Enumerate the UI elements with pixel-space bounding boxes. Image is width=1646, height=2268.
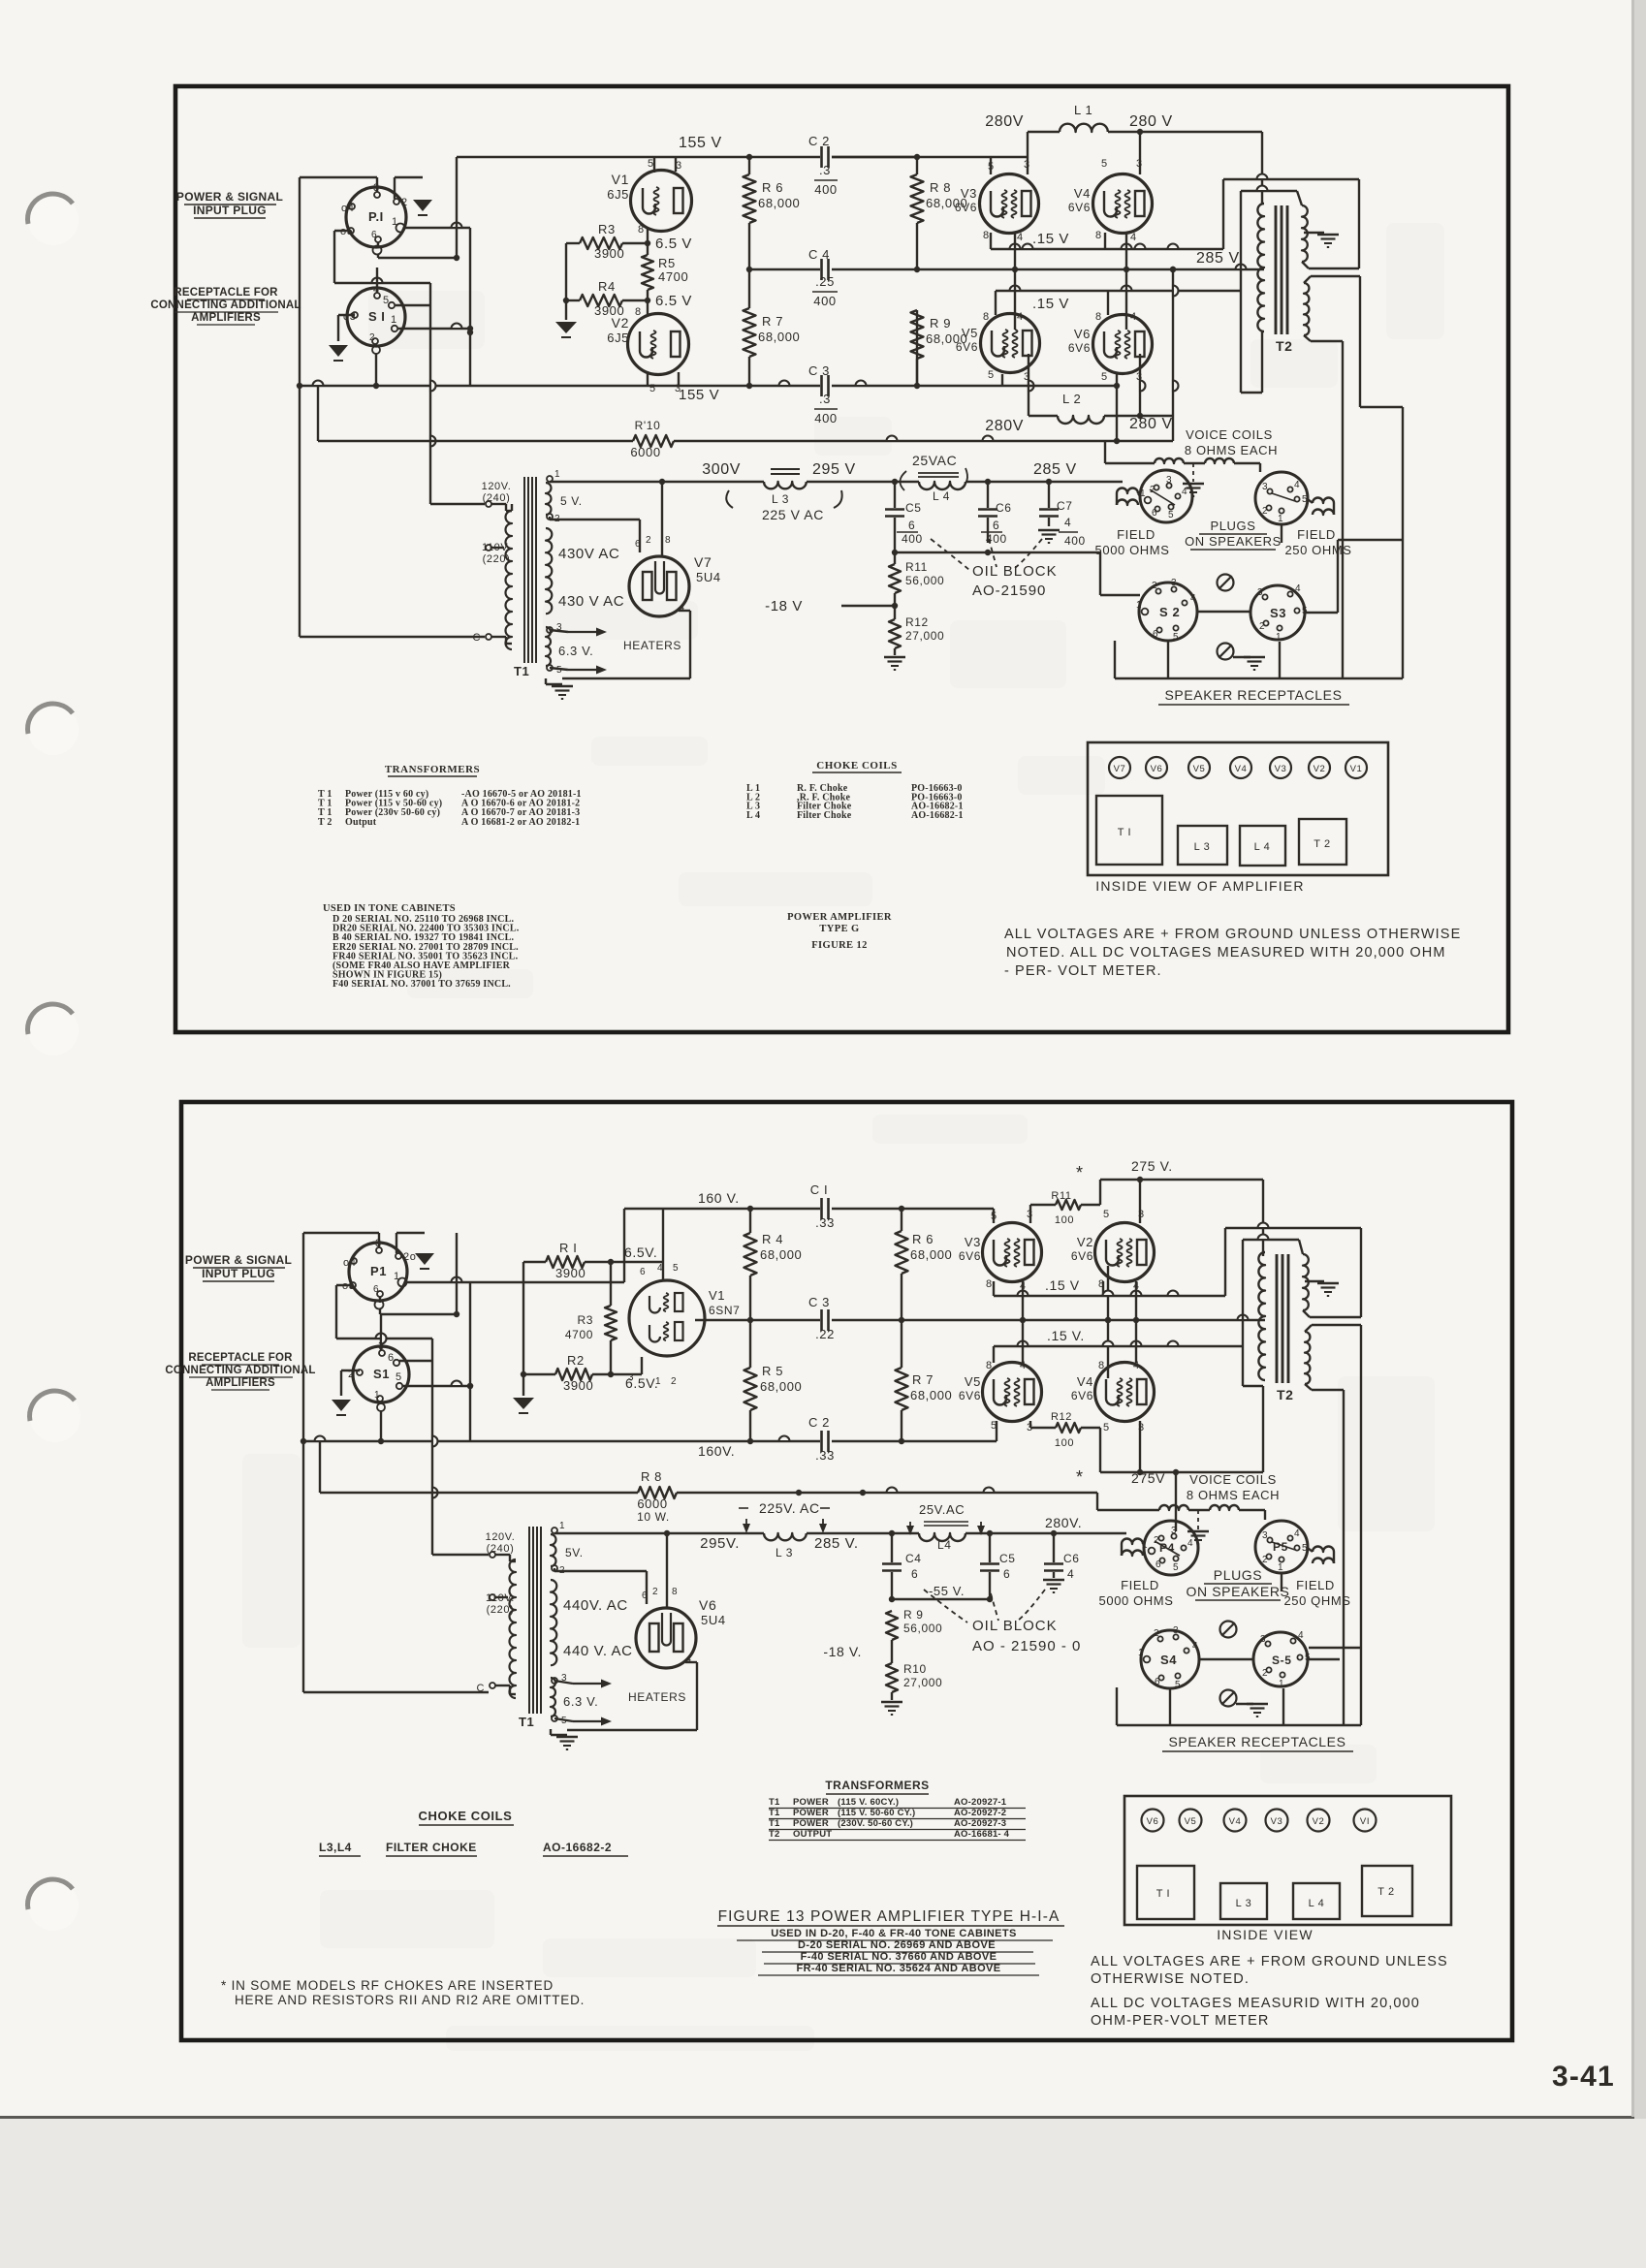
svg-text:5: 5 [1101,158,1108,170]
svg-text:ON SPEAKERS: ON SPEAKERS [1185,534,1282,549]
svg-text:1: 1 [1278,514,1283,524]
svg-text:2: 2 [1259,621,1265,632]
svg-text:25V.AC: 25V.AC [919,1502,965,1517]
svg-text:T I: T I [1118,827,1131,838]
svg-text:Filter Choke: Filter Choke [797,810,852,821]
svg-text:1: 1 [394,1271,400,1282]
svg-text:L 2: L 2 [1062,392,1081,406]
svg-text:400: 400 [814,182,838,197]
svg-text:3: 3 [1171,578,1177,588]
svg-text:3: 3 [1257,587,1263,598]
svg-text:8: 8 [635,306,642,318]
svg-text:4: 4 [1298,1630,1304,1641]
svg-text:C6: C6 [1063,1552,1080,1565]
svg-text:5: 5 [1103,1209,1110,1220]
svg-text:6.5V.: 6.5V. [625,1375,658,1391]
svg-text:VI: VI [1360,1816,1370,1827]
svg-text:25VAC: 25VAC [912,453,957,468]
svg-text:6: 6 [371,230,377,240]
svg-text:68,000: 68,000 [760,1379,802,1394]
svg-text:T 2: T 2 [1314,838,1331,850]
svg-text:3-41: 3-41 [1552,2061,1615,2093]
svg-text:F-40 SERIAL NO. 37660 AND ABOV: F-40 SERIAL NO. 37660 AND ABOVE [801,1951,997,1963]
svg-text:4: 4 [1130,232,1137,243]
svg-text:HERE AND RESISTORS RII AND RI2: HERE AND RESISTORS RII AND RI2 ARE OMITT… [235,1993,585,2007]
svg-text:ALL DC VOLTAGES MEASURID W: ALL DC VOLTAGES MEASURID WITH 20,000 [1091,1996,1420,2011]
svg-text:400: 400 [902,532,923,546]
svg-text:CONNECTING ADDITIONAL: CONNECTING ADDITIONAL [165,1365,315,1376]
svg-text:5 V.: 5 V. [560,494,583,508]
svg-text:4: 4 [1130,311,1137,323]
svg-text:R 7: R 7 [912,1372,934,1387]
svg-text:6: 6 [640,1267,646,1277]
svg-text:VOICE COILS: VOICE COILS [1186,427,1273,442]
svg-text:2: 2 [646,535,651,546]
svg-text:OIL BLOCK: OIL BLOCK [972,1618,1058,1634]
svg-text:27,000: 27,000 [903,1676,942,1689]
svg-text:V4: V4 [1077,1374,1093,1389]
svg-text:68,000: 68,000 [760,1247,802,1262]
svg-text:V7: V7 [694,554,712,570]
svg-text:L 1: L 1 [1074,103,1092,117]
svg-text:8: 8 [665,535,671,546]
svg-text:.15 V: .15 V [1032,231,1069,247]
svg-text:6V6: 6V6 [955,201,977,214]
svg-text:FIELD: FIELD [1297,527,1336,542]
svg-text:R 9: R 9 [930,316,951,331]
svg-text:R 8: R 8 [930,180,951,195]
svg-text:R 5: R 5 [762,1364,783,1378]
svg-text:OTHERWISE NOTED.: OTHERWISE NOTED. [1091,1971,1250,1987]
svg-text:R12: R12 [1051,1411,1072,1423]
svg-text:-55 V.: -55 V. [929,1584,965,1598]
svg-text:5: 5 [1173,632,1179,643]
svg-text:NOTED. ALL DC VOLTAGES MEA: NOTED. ALL DC VOLTAGES MEASURED WITH 20,… [1006,945,1446,961]
svg-text:L 4: L 4 [933,489,950,503]
svg-text:V3: V3 [961,186,977,201]
svg-text:275V: 275V [1131,1470,1165,1486]
svg-text:V5: V5 [1193,764,1206,774]
svg-text:4: 4 [1294,1528,1300,1539]
svg-text:FILTER CHOKE: FILTER CHOKE [386,1841,477,1854]
svg-text:L 3: L 3 [1236,1898,1252,1909]
svg-text:8: 8 [986,1278,993,1290]
svg-text:4: 4 [1294,480,1300,490]
svg-text:- PER- VOLT METER.: - PER- VOLT METER. [1004,963,1162,979]
svg-text:R10: R10 [903,1662,927,1676]
svg-text:155 V: 155 V [679,387,719,403]
svg-text:POWER & SIGNAL: POWER & SIGNAL [176,190,283,204]
svg-text:6: 6 [373,1284,379,1295]
svg-text:5: 5 [383,295,390,306]
svg-text:8: 8 [1098,1360,1105,1371]
svg-text:USED IN D-20, F-40 & FR-40 TON: USED IN D-20, F-40 & FR-40 TONE CABINETS [771,1928,1017,1939]
svg-text:F40 SERIAL NO. 37001 TO: F40 SERIAL NO. 37001 TO 37659 INCL. [332,979,511,990]
svg-text:295 V: 295 V [812,461,856,478]
svg-text:1: 1 [1276,632,1282,643]
svg-text:6: 6 [908,519,915,532]
svg-text:(230V. 50-60 CY.): (230V. 50-60 CY.) [838,1818,913,1829]
svg-text:V5: V5 [962,326,978,340]
svg-text:5: 5 [1302,1543,1308,1554]
svg-text:5: 5 [648,158,654,170]
svg-text:L 4: L 4 [746,810,760,821]
svg-text:5: 5 [1168,510,1174,520]
svg-text:3900: 3900 [555,1266,586,1280]
svg-text:400: 400 [1064,534,1086,548]
svg-text:S 2: S 2 [1159,605,1180,619]
svg-text:250 QHMS: 250 QHMS [1283,1593,1350,1608]
svg-text:160 V.: 160 V. [698,1190,740,1206]
svg-text:68,000: 68,000 [758,196,800,210]
svg-text:4: 4 [1192,1641,1198,1652]
svg-text:3: 3 [1262,482,1268,492]
svg-text:3: 3 [1260,1634,1266,1645]
svg-text:285 V: 285 V [1196,250,1240,267]
svg-text:TYPE G: TYPE G [819,924,859,934]
svg-text:AO-16682-1: AO-16682-1 [911,810,964,821]
svg-text:R 6: R 6 [762,180,783,195]
svg-text:1: 1 [392,216,398,228]
svg-text:280 V: 280 V [1129,416,1173,432]
svg-text:6: 6 [1153,629,1158,640]
svg-text:C 2: C 2 [808,134,830,148]
svg-text:PLUGS: PLUGS [1210,519,1255,533]
svg-text:6V6: 6V6 [959,1249,981,1263]
svg-text:4: 4 [657,1263,663,1274]
svg-text:430 V AC: 430 V AC [558,593,624,610]
svg-text:R3: R3 [577,1313,593,1327]
svg-text:V4: V4 [1229,1816,1242,1827]
svg-text:2: 2 [1152,581,1157,591]
svg-text:.15 V.: .15 V. [1047,1328,1085,1343]
svg-text:(220): (220) [487,1604,515,1616]
svg-text:56,000: 56,000 [903,1622,942,1635]
svg-text:(240): (240) [487,1543,515,1555]
svg-text:HEATERS: HEATERS [628,1690,686,1704]
svg-text:10 W.: 10 W. [637,1510,670,1524]
svg-text:T2: T2 [769,1829,780,1840]
svg-text:V6: V6 [1151,764,1163,774]
svg-text:FIELD: FIELD [1121,1578,1159,1592]
svg-text:V2: V2 [1313,1816,1325,1827]
svg-text:P1: P1 [370,1264,387,1278]
svg-text:6SN7: 6SN7 [709,1304,740,1317]
svg-text:V2: V2 [1314,764,1326,774]
svg-text:T2: T2 [1276,338,1293,354]
svg-text:4: 4 [1182,487,1187,497]
svg-text:5: 5 [673,1263,679,1274]
svg-text:POWER: POWER [793,1818,829,1829]
svg-text:3: 3 [1024,159,1030,171]
svg-text:OUTPUT: OUTPUT [793,1829,832,1840]
svg-text:6V6: 6V6 [1071,1249,1093,1263]
svg-text:6V6: 6V6 [956,340,978,354]
svg-text:100: 100 [1055,1437,1074,1449]
svg-text:V3: V3 [1275,764,1287,774]
svg-text:1: 1 [391,314,397,326]
svg-text:27,000: 27,000 [905,629,944,643]
svg-text:5: 5 [1173,1562,1179,1573]
svg-text:*: * [1076,1467,1084,1487]
svg-text:*: * [1076,1163,1084,1182]
svg-text:o3: o3 [343,311,356,323]
svg-text:R11: R11 [1051,1190,1071,1202]
svg-text:1: 1 [1278,1562,1283,1573]
svg-text:4: 4 [1190,593,1196,604]
svg-text:C 2: C 2 [808,1415,830,1430]
svg-text:6.5V.: 6.5V. [624,1244,657,1260]
svg-text:68,000: 68,000 [910,1247,952,1262]
svg-text:CONNECTING ADDITIONAL: CONNECTING ADDITIONAL [150,299,301,311]
svg-text:225V. AC: 225V. AC [759,1500,820,1516]
svg-text:5: 5 [1103,1422,1110,1433]
svg-text:6.5 V: 6.5 V [655,236,692,252]
svg-text:100: 100 [1055,1214,1074,1226]
svg-text:L4: L4 [937,1538,952,1552]
svg-text:8: 8 [1095,311,1102,323]
svg-text:400: 400 [814,411,838,425]
svg-text:C 3: C 3 [808,363,830,378]
svg-text:S I: S I [368,309,385,324]
svg-text:(115 V. 50-60 CY.): (115 V. 50-60 CY.) [838,1808,915,1818]
svg-text:250 OHMS: 250 OHMS [1284,543,1351,557]
svg-text:5: 5 [988,369,995,381]
svg-text:L 3: L 3 [1194,841,1211,853]
svg-text:T1: T1 [769,1808,780,1818]
svg-text:S-5: S-5 [1272,1654,1291,1667]
svg-text:.33: .33 [815,1215,835,1230]
svg-text:S4: S4 [1160,1653,1177,1667]
svg-text:3: 3 [1173,1625,1179,1636]
svg-text:5: 5 [991,1420,997,1432]
svg-text:SPEAKER RECEPTACLES: SPEAKER RECEPTACLES [1168,1734,1345,1749]
svg-text:5: 5 [988,161,995,173]
svg-text:-18 V.: -18 V. [823,1644,862,1659]
svg-text:D-20 SERIAL NO. 26969 AND ABOV: D-20 SERIAL NO. 26969 AND ABOVE [798,1939,996,1951]
svg-text:430V AC: 430V AC [558,546,619,562]
svg-text:5: 5 [1302,606,1308,616]
svg-text:o4: o4 [341,203,354,214]
svg-text:T1: T1 [769,1797,780,1808]
svg-text:FR-40 SERIAL NO. 35624 AND ABO: FR-40 SERIAL NO. 35624 AND ABOVE [796,1963,1000,1974]
svg-text:V3: V3 [1271,1816,1283,1827]
svg-text:C5: C5 [999,1552,1016,1565]
svg-text:8: 8 [1095,230,1102,241]
svg-text:C I: C I [810,1182,828,1197]
svg-text:1: 1 [1136,600,1142,611]
svg-text:R5: R5 [658,256,676,270]
svg-text:C7: C7 [1057,499,1073,513]
svg-text:120V.: 120V. [482,481,512,492]
svg-text:L3,L4: L3,L4 [319,1841,352,1854]
svg-text:R11: R11 [905,560,928,574]
svg-text:4: 4 [1067,1567,1074,1581]
svg-text:155 V: 155 V [679,135,722,151]
svg-text:SPEAKER RECEPTACLES: SPEAKER RECEPTACLES [1164,687,1342,703]
svg-text:POWER: POWER [793,1808,829,1818]
svg-text:1: 1 [1279,1679,1284,1689]
svg-text:(220): (220) [483,553,511,565]
svg-text:6: 6 [1003,1567,1010,1581]
svg-text:INPUT PLUG: INPUT PLUG [202,1267,275,1280]
svg-text:68,000: 68,000 [758,330,800,344]
svg-text:AO-21590: AO-21590 [972,583,1046,599]
svg-text:TRANSFORMERS: TRANSFORMERS [825,1779,929,1792]
svg-text:1: 1 [1140,488,1146,499]
svg-text:6V6: 6V6 [1071,1389,1093,1402]
svg-text:68,000: 68,000 [910,1388,952,1402]
svg-text:2: 2 [671,1376,677,1387]
svg-text:2: 2 [1154,1628,1159,1639]
svg-text:6V6: 6V6 [1068,201,1091,214]
svg-text:285 V: 285 V [1033,461,1077,478]
svg-text:V4: V4 [1074,186,1091,201]
svg-text:R I: R I [559,1241,577,1255]
svg-text:TRANSFORMERS: TRANSFORMERS [385,764,480,775]
svg-text:6: 6 [1155,1677,1160,1687]
svg-text:8: 8 [672,1587,678,1597]
svg-text:8 OHMS EACH: 8 OHMS EACH [1187,1488,1280,1502]
svg-text:R 6: R 6 [912,1232,934,1246]
svg-text:4: 4 [1064,516,1071,529]
svg-text:.3: .3 [819,163,831,177]
svg-text:5000 OHMS: 5000 OHMS [1095,543,1170,557]
svg-text:AMPLIFIERS: AMPLIFIERS [206,1377,275,1389]
svg-text:-18 V: -18 V [765,598,803,614]
svg-text:2: 2 [652,1587,658,1597]
svg-text:POWER: POWER [793,1797,829,1808]
svg-text:5V.: 5V. [565,1546,584,1559]
svg-text:6: 6 [1155,1559,1161,1570]
svg-text:FIGURE 13 POWER AMPLIFIER: FIGURE 13 POWER AMPLIFIER TYPE H-I-A [718,1908,1060,1925]
svg-text:ON SPEAKERS: ON SPEAKERS [1187,1584,1290,1599]
svg-text:.33: .33 [815,1448,835,1463]
svg-text:HEATERS: HEATERS [623,639,681,652]
svg-text:V6: V6 [1147,1816,1159,1827]
svg-text:1: 1 [559,1521,565,1531]
svg-text:8: 8 [638,224,645,236]
svg-text:8: 8 [983,311,990,323]
svg-text:5: 5 [396,1371,402,1383]
svg-text:8: 8 [983,230,990,241]
svg-text:1: 1 [554,469,560,480]
svg-text:.25: .25 [815,274,835,289]
svg-text:R4: R4 [598,279,616,294]
svg-text:3900: 3900 [594,246,624,261]
svg-text:T I: T I [1156,1888,1170,1900]
svg-text:USED IN TONE CABINETS: USED IN TONE CABINETS [323,903,456,914]
svg-text:POWER AMPLIFIER: POWER AMPLIFIER [787,912,892,923]
svg-text:VOICE COILS: VOICE COILS [1189,1472,1277,1487]
svg-text:C6: C6 [996,501,1012,515]
svg-text:V1: V1 [709,1288,725,1303]
svg-text:6.3 V.: 6.3 V. [563,1694,598,1709]
svg-text:T2: T2 [1277,1387,1294,1402]
svg-text:V1: V1 [1350,764,1363,774]
svg-text:AO-20927-3: AO-20927-3 [954,1818,1006,1829]
svg-text:INPUT PLUG: INPUT PLUG [193,204,267,217]
svg-text:T1: T1 [514,664,529,678]
svg-text:RECEPTACLE FOR: RECEPTACLE FOR [188,1352,293,1364]
svg-text:L 3: L 3 [776,1546,793,1559]
svg-text:440V. AC: 440V. AC [563,1597,628,1614]
svg-text:2: 2 [1262,1555,1268,1565]
svg-text:300V: 300V [702,461,741,478]
svg-text:.15 V: .15 V [1045,1277,1080,1293]
svg-text:V7: V7 [1114,764,1126,774]
svg-text:* IN SOME MODELS RF CHOKES ARE: * IN SOME MODELS RF CHOKES ARE INSERTED [221,1978,554,1993]
svg-text:4: 4 [1187,1538,1193,1549]
svg-text:INSIDE VIEW: INSIDE VIEW [1217,1927,1314,1942]
svg-text:5: 5 [556,665,562,676]
svg-text:ALL VOLTAGES ARE + FROM GRO: ALL VOLTAGES ARE + FROM GROUND UNLESS OT… [1004,927,1461,942]
svg-text:5U4: 5U4 [696,570,721,584]
svg-text:T1: T1 [519,1715,534,1729]
svg-text:6000: 6000 [637,1496,667,1511]
svg-text:2: 2 [1262,506,1268,517]
svg-text:440 V. AC: 440 V. AC [563,1643,633,1659]
svg-text:110V.: 110V. [482,542,511,553]
svg-text:FIELD: FIELD [1296,1578,1335,1592]
svg-text:6V6: 6V6 [959,1389,981,1402]
svg-text:1: 1 [374,1390,380,1401]
svg-text:(240): (240) [483,492,511,504]
svg-text:.15 V: .15 V [1032,296,1069,312]
svg-text:V3: V3 [965,1235,981,1249]
svg-text:AO - 21590 - 0: AO - 21590 - 0 [972,1638,1081,1654]
svg-text:56,000: 56,000 [905,574,944,587]
svg-text:3: 3 [1166,475,1172,486]
svg-text:FIELD: FIELD [1117,527,1155,542]
svg-text:R'10: R'10 [635,419,661,432]
svg-text:275 V.: 275 V. [1131,1158,1173,1174]
svg-text:5U4: 5U4 [701,1613,726,1627]
svg-text:PLUGS: PLUGS [1214,1567,1262,1583]
svg-text:120V.: 120V. [486,1531,516,1543]
svg-text:V5: V5 [1185,1816,1197,1827]
svg-text:CHOKE COILS: CHOKE COILS [419,1809,513,1823]
svg-text:V1: V1 [612,172,629,187]
svg-text:6.5 V: 6.5 V [655,293,692,309]
svg-text:5: 5 [1305,1653,1311,1663]
svg-text:V4: V4 [1235,764,1248,774]
svg-text:6: 6 [911,1567,918,1581]
svg-text:110V.: 110V. [486,1592,515,1604]
svg-text:AO-20927-2: AO-20927-2 [954,1808,1006,1818]
svg-text:AMPLIFIERS: AMPLIFIERS [191,312,261,324]
svg-text:3900: 3900 [563,1378,593,1393]
svg-text:280V: 280V [985,113,1024,130]
svg-text:2o: 2o [403,1251,416,1263]
svg-text:V2: V2 [612,315,629,331]
svg-text:5000 OHMS: 5000 OHMS [1099,1593,1174,1608]
svg-text:225 V AC: 225 V AC [762,507,824,522]
svg-text:A O 16681-2 or AO 20182-1: A O 16681-2 or AO 20182-1 [461,817,580,828]
svg-text:5: 5 [1101,371,1108,383]
svg-text:R12: R12 [905,615,929,629]
svg-text:.3: .3 [819,392,831,406]
svg-text:2: 2 [401,197,408,208]
svg-text:Output: Output [345,817,377,828]
svg-text:2: 2 [369,332,375,343]
svg-text:1: 1 [1138,1648,1144,1658]
svg-text:OHM-PER-VOLT METER: OHM-PER-VOLT METER [1091,2013,1269,2029]
svg-text:6V6: 6V6 [1068,341,1091,355]
svg-text:6.3 V.: 6.3 V. [558,644,593,658]
svg-text:INSIDE VIEW OF AMPLIFIER: INSIDE VIEW OF AMPLIFIER [1095,878,1305,894]
svg-text:AO-16682-2: AO-16682-2 [543,1841,612,1854]
